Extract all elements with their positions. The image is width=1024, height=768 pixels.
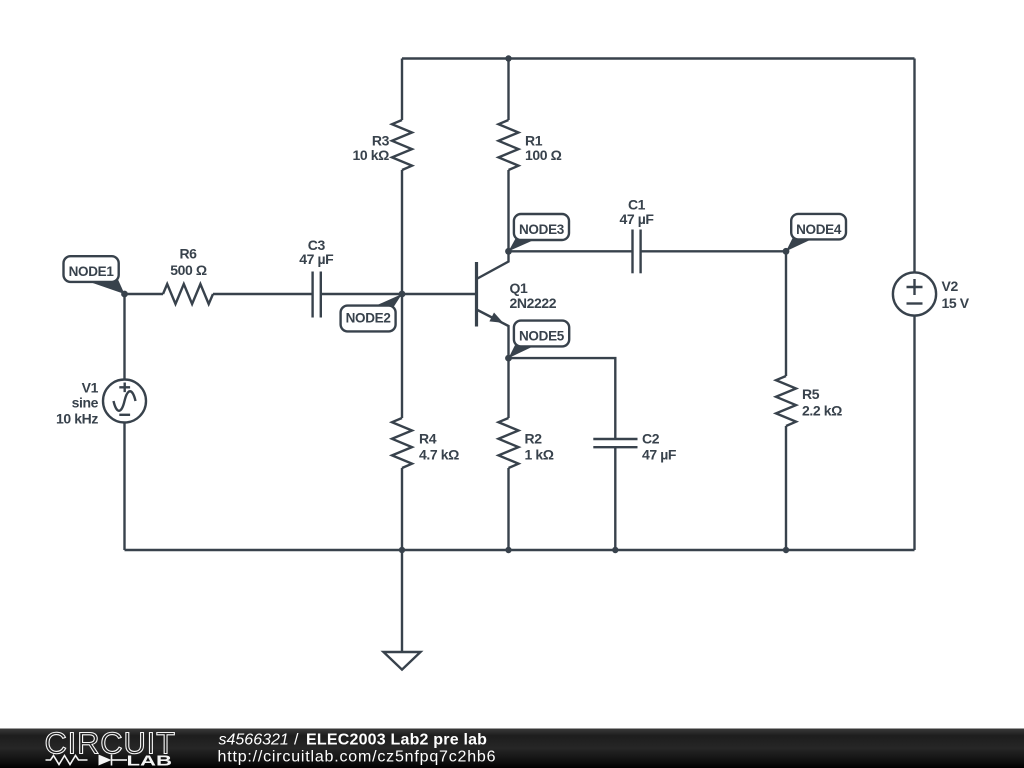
svg-text:2.2 kΩ: 2.2 kΩ bbox=[802, 403, 842, 419]
wire C3 to NODE2 bbox=[321, 293, 402, 295]
svg-text:NODE3: NODE3 bbox=[519, 222, 565, 237]
label C2 value bbox=[642, 431, 677, 463]
wire NODE1 to R6 bbox=[125, 293, 164, 295]
wire V2 top lead bbox=[913, 59, 915, 273]
node D NODE4 bbox=[783, 214, 846, 255]
junction dot R2 bottom bbox=[505, 547, 511, 553]
footer bar bbox=[0, 729, 1024, 768]
label R3 value bbox=[353, 133, 390, 164]
junction dot C2 bottom bbox=[612, 547, 618, 553]
junction dot R5 bottom bbox=[783, 547, 789, 553]
svg-text:R5: R5 bbox=[802, 386, 820, 402]
wire NODE4 to R5 bbox=[785, 251, 787, 376]
svg-text:R6: R6 bbox=[179, 246, 197, 262]
wire NODE2 to Q1 base bbox=[402, 293, 477, 295]
svg-text:V1: V1 bbox=[82, 380, 99, 396]
wire V1 top lead bbox=[123, 294, 125, 380]
svg-text:R2: R2 bbox=[525, 431, 543, 447]
voltage source V1 bbox=[103, 380, 146, 423]
wire R5 to bottom rail bbox=[785, 426, 787, 550]
label V2 value bbox=[942, 278, 970, 311]
transistor Q1 bbox=[477, 251, 509, 358]
node C NODE3 bbox=[505, 214, 569, 255]
svg-text:10 kΩ: 10 kΩ bbox=[353, 147, 390, 163]
capacitor C3 bbox=[313, 272, 321, 318]
label R5 value bbox=[802, 386, 842, 419]
wire R6 to C3 bbox=[213, 293, 313, 295]
label R1 value bbox=[525, 133, 562, 164]
resistor R5 bbox=[776, 376, 796, 426]
svg-text:V2: V2 bbox=[942, 278, 959, 294]
wire NODE5 to R2 bbox=[507, 358, 509, 418]
svg-text:500 Ω: 500 Ω bbox=[170, 262, 207, 278]
voltage source V2 bbox=[893, 272, 936, 315]
ground bbox=[384, 550, 421, 670]
svg-text:R4: R4 bbox=[419, 431, 437, 447]
capacitor C2 bbox=[593, 439, 637, 447]
svg-text:C2: C2 bbox=[642, 431, 660, 447]
wire NODE5 to C2 bbox=[509, 358, 616, 439]
svg-text:s4566321: s4566321 bbox=[219, 732, 289, 749]
footer logo CIRCUIT bbox=[45, 726, 176, 761]
svg-text:NODE1: NODE1 bbox=[69, 264, 115, 279]
svg-text:1 kΩ: 1 kΩ bbox=[525, 447, 554, 463]
label R2 value bbox=[525, 431, 554, 463]
resistor R4 bbox=[392, 418, 412, 468]
resistor R1 bbox=[499, 120, 519, 170]
resistor R6 bbox=[163, 284, 213, 304]
svg-text:47 µF: 47 µF bbox=[299, 251, 334, 267]
capacitor C1 bbox=[633, 230, 641, 274]
label C1 value bbox=[619, 197, 654, 228]
node B NODE2 bbox=[341, 291, 406, 332]
label Q1 value bbox=[510, 280, 557, 311]
label V1 value bbox=[56, 380, 99, 427]
svg-text:NODE5: NODE5 bbox=[519, 328, 565, 343]
wire R3 top lead bbox=[401, 59, 403, 121]
label R4 value bbox=[419, 431, 459, 463]
junction dot ground bbox=[399, 547, 405, 553]
wire C2 to bottom rail bbox=[614, 447, 616, 550]
wire R1 top lead bbox=[507, 59, 509, 121]
label R6 value bbox=[170, 246, 207, 279]
wire C1 to NODE4 bbox=[641, 250, 786, 252]
wire R1 to NODE3 bbox=[507, 170, 509, 251]
wire bottom rail bbox=[125, 549, 915, 551]
wire R2 to bottom rail bbox=[507, 468, 509, 550]
wire NODE3 to C1 bbox=[509, 250, 633, 252]
svg-text:/: / bbox=[294, 732, 299, 749]
wire R3 to NODE2 bbox=[401, 170, 403, 294]
wire top rail bbox=[402, 57, 915, 59]
junction dot top rail R1 bbox=[505, 55, 511, 61]
footer title text bbox=[219, 732, 488, 749]
svg-text:10 kHz: 10 kHz bbox=[56, 411, 98, 427]
svg-text:sine: sine bbox=[72, 395, 99, 411]
wire R4 top lead bbox=[401, 294, 403, 418]
svg-text:Q1: Q1 bbox=[510, 280, 528, 296]
svg-text:47 µF: 47 µF bbox=[642, 447, 677, 463]
svg-text:15 V: 15 V bbox=[942, 295, 970, 311]
node E NODE5 bbox=[505, 321, 569, 362]
svg-text:ELEC2003 Lab2 pre lab: ELEC2003 Lab2 pre lab bbox=[306, 732, 487, 749]
footer logo squiggle bbox=[46, 755, 128, 766]
resistor R2 bbox=[499, 418, 519, 468]
label C3 value bbox=[299, 237, 334, 267]
svg-text:LAB: LAB bbox=[127, 754, 173, 768]
svg-text:100 Ω: 100 Ω bbox=[525, 147, 562, 163]
wire V1 bottom lead bbox=[123, 423, 125, 551]
svg-text:NODE4: NODE4 bbox=[796, 222, 842, 237]
wire V2 bottom lead bbox=[913, 316, 915, 550]
node A NODE1 bbox=[64, 256, 128, 297]
svg-text:47 µF: 47 µF bbox=[619, 211, 654, 227]
wire R4 to bottom rail bbox=[401, 468, 403, 550]
svg-text:http://circuitlab.com/cz5nfpq7: http://circuitlab.com/cz5nfpq7c2hb6 bbox=[218, 749, 497, 766]
svg-text:4.7 kΩ: 4.7 kΩ bbox=[419, 447, 459, 463]
svg-text:2N2222: 2N2222 bbox=[510, 295, 557, 311]
svg-text:NODE2: NODE2 bbox=[346, 311, 391, 326]
resistor R3 bbox=[392, 120, 412, 170]
